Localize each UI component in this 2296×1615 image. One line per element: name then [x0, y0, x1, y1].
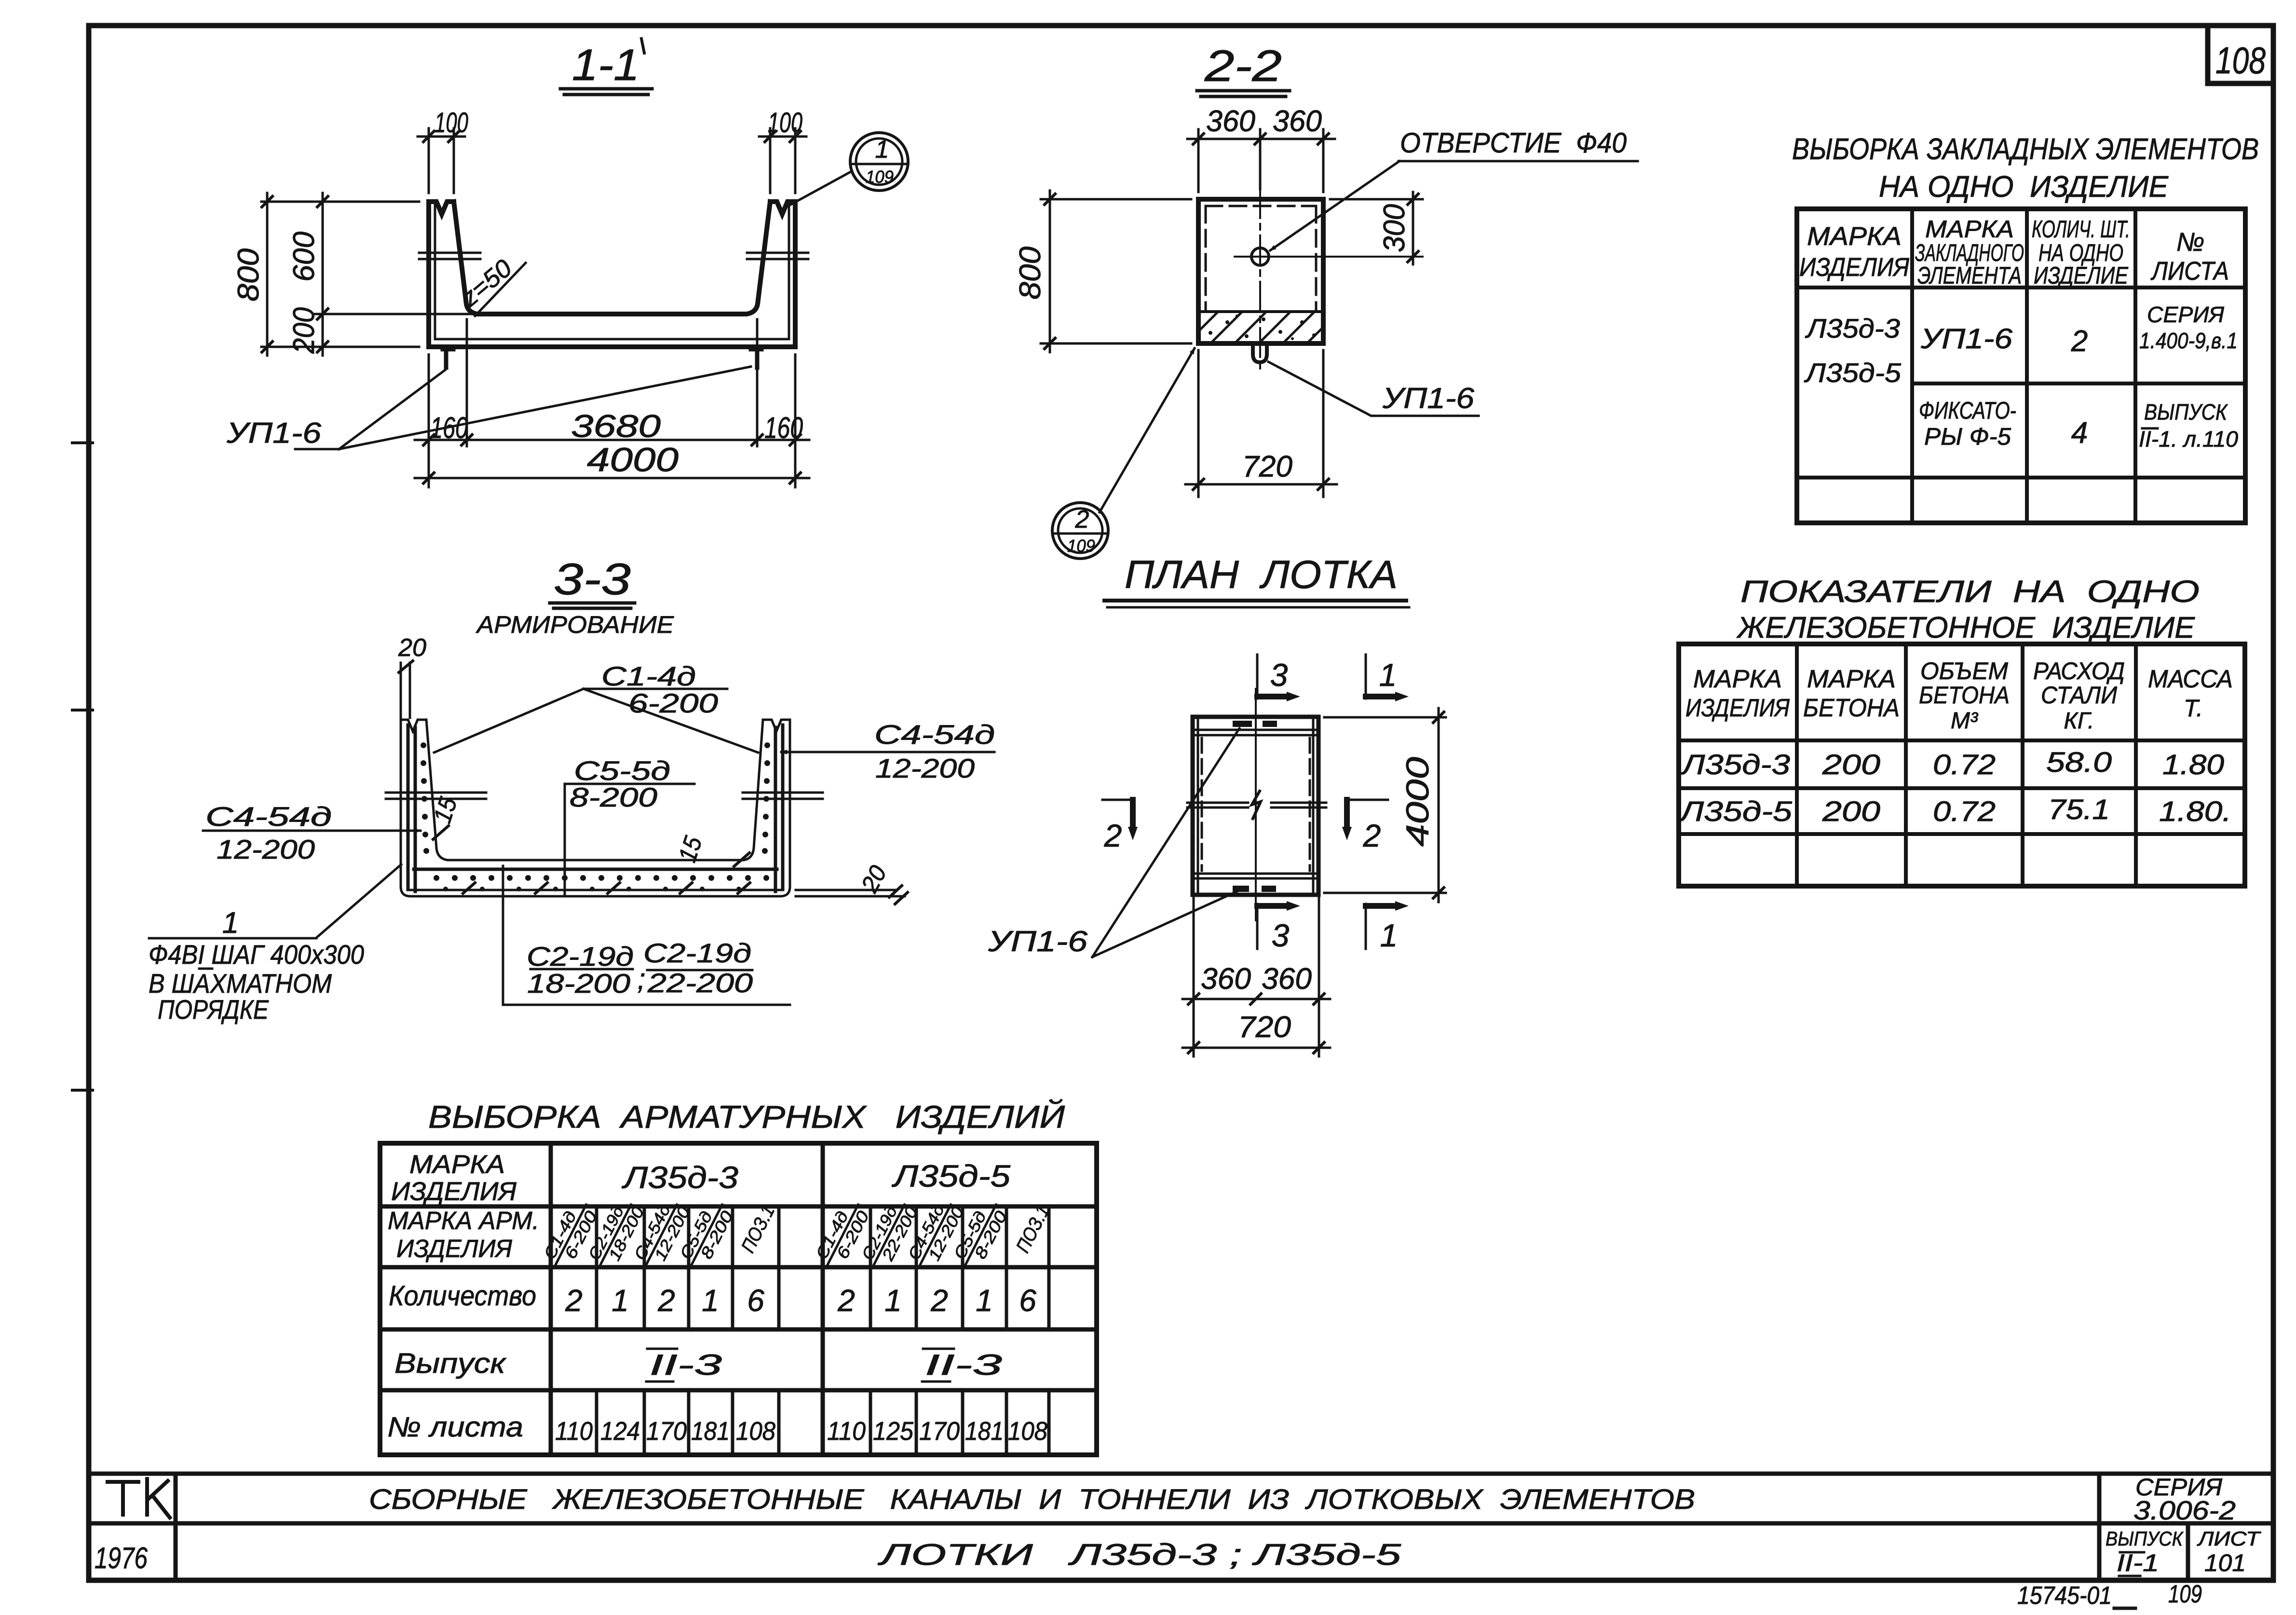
dim 15 left slash — [433, 826, 448, 839]
dim 100 left ext lines — [429, 128, 454, 193]
label C2 leader — [503, 866, 790, 1005]
svg-text:УП1-6: УП1-6 — [226, 417, 322, 449]
svg-text:1: 1 — [884, 1283, 902, 1318]
dim 720 ticks 2-2 — [1193, 479, 1329, 490]
break marks left wall — [419, 253, 480, 259]
note I underline — [199, 968, 212, 970]
dim 800 ticks 2-2 — [1045, 194, 1055, 349]
svg-text:110: 110 — [827, 1417, 866, 1446]
plan joint break zigzag — [1252, 791, 1261, 819]
slab anchor ticks — [463, 883, 750, 893]
channel inner contour walls and floor — [454, 202, 770, 314]
dim 20 top left slash — [399, 661, 413, 672]
svg-text:22-200: 22-200 — [647, 968, 753, 998]
svg-text:0.72: 0.72 — [1933, 796, 1996, 827]
plan UP plates bottom — [1233, 886, 1276, 892]
z=50 leader — [475, 263, 526, 316]
end wall dashed inner lines — [1206, 206, 1316, 312]
svg-text:ИЗДЕЛИЯ: ИЗДЕЛИЯ — [1799, 253, 1909, 282]
UP1-6 leaders — [295, 367, 751, 449]
label C2-19d second fraction line — [647, 969, 752, 972]
svg-text:1: 1 — [611, 1283, 629, 1318]
vypusk II underline — [2119, 1575, 2140, 1577]
svg-text:СЕРИЯ: СЕРИЯ — [2147, 302, 2225, 327]
dim line 4000 — [415, 477, 809, 479]
section mark 1 bottom — [1365, 904, 1367, 949]
svg-text:ИЗДЕЛИЯ: ИЗДЕЛИЯ — [1685, 694, 1790, 722]
svg-text:1-1: 1-1 — [572, 41, 639, 90]
UP1-6 leader 2-2 — [1268, 362, 1479, 416]
fold tick left lower — [72, 1089, 93, 1092]
svg-text:АРМИРОВАНИЕ: АРМИРОВАНИЕ — [476, 611, 674, 638]
svg-text:ОБЪЕМ: ОБЪЕМ — [1920, 657, 2008, 684]
svg-text:Ф4ВI ШАГ 400х300: Ф4ВI ШАГ 400х300 — [149, 939, 364, 970]
svg-text:ЛОТКИ Л35д-3 ; Л35д-5: ЛОТКИ Л35д-3 ; Л35д-5 — [877, 1538, 1401, 1572]
svg-text:БЕТОНА: БЕТОНА — [1919, 682, 2010, 709]
dim 20 bottom right slash — [889, 886, 908, 904]
section mark 2 right — [1345, 799, 1388, 801]
svg-text:ВЫПУСК: ВЫПУСК — [2144, 399, 2228, 424]
svg-text:6: 6 — [747, 1283, 764, 1318]
concrete hatch — [1186, 310, 1341, 343]
svg-text:ИЗДЕЛИЕ: ИЗДЕЛИЕ — [2034, 262, 2129, 289]
svg-text:Л35д-5: Л35д-5 — [1678, 796, 1793, 827]
dim 100 right ext lines — [770, 128, 795, 193]
otverstie underline — [1399, 160, 1638, 163]
svg-text:100: 100 — [435, 107, 468, 138]
svg-text:№ листа: № листа — [387, 1411, 523, 1443]
svg-text:МАРКА: МАРКА — [1925, 216, 2014, 243]
svg-text:2: 2 — [930, 1283, 948, 1318]
svg-text:М³: М³ — [1951, 708, 1979, 734]
svg-text:18-200: 18-200 — [527, 968, 630, 999]
svg-text:КОЛИЧ. ШТ.: КОЛИЧ. ШТ. — [2032, 216, 2130, 243]
svg-text:ВЫПУСК: ВЫПУСК — [2106, 1527, 2184, 1550]
svg-text:360: 360 — [1206, 105, 1255, 138]
svg-text:720: 720 — [1238, 1011, 1291, 1044]
svg-text:124: 124 — [600, 1417, 640, 1446]
dim 300 line — [1412, 192, 1414, 264]
svg-text:720: 720 — [1242, 450, 1292, 483]
plan dim 4000 line — [1438, 708, 1440, 902]
center axis line 2-2 — [1259, 189, 1261, 374]
svg-text:109: 109 — [866, 167, 894, 187]
dim 20 top left ticks — [401, 663, 410, 718]
plan UP plates top — [1233, 721, 1277, 727]
plan dim 360 ext lines — [1194, 898, 1319, 1006]
concrete dots — [1209, 315, 1316, 340]
svg-text:800: 800 — [1014, 246, 1047, 300]
rot label g1c2 C2-19d — [584, 1195, 648, 1273]
right wall rebar lines — [775, 725, 783, 891]
rot label g1c1 C1-4d — [539, 1196, 602, 1273]
svg-text:ЛИСТ: ЛИСТ — [2197, 1527, 2262, 1550]
svg-text:С4-54д: С4-54д — [874, 719, 995, 750]
left wall rebar dots — [421, 742, 429, 854]
svg-text:№: № — [2176, 228, 2204, 257]
hole circle — [1251, 248, 1269, 265]
dim 100 left ticks — [423, 131, 459, 142]
dim 4000 ticks — [423, 473, 801, 483]
table3 subcolumn lines group2 row5 — [870, 1390, 1049, 1455]
table2 grid — [1679, 644, 2245, 886]
plan middle joint lines — [1187, 803, 1326, 807]
svg-text:ВЫБОРКА АРМАТУРНЫХ ИЗДЕЛИЙ: ВЫБОРКА АРМАТУРНЫХ ИЗДЕЛИЙ — [428, 1098, 1065, 1135]
svg-text:1: 1 — [1379, 657, 1397, 693]
svg-text:109: 109 — [1067, 536, 1095, 556]
svg-text:3.006-2: 3.006-2 — [2133, 1495, 2236, 1525]
svg-text:108: 108 — [2215, 39, 2266, 82]
svg-text:ЖЕЛЕЗОБЕТОННОЕ ИЗДЕЛИЕ: ЖЕЛЕЗОБЕТОННОЕ ИЗДЕЛИЕ — [1736, 611, 2195, 644]
svg-text:ЛИСТА: ЛИСТА — [2150, 257, 2229, 286]
plan dim 720 line — [1182, 1047, 1330, 1049]
svg-text:СБОРНЫЕ ЖЕЛЕЗОБЕТОННЫЕ КАН: СБОРНЫЕ ЖЕЛЕЗОБЕТОННЫЕ КАНАЛЫ И ТОННЕЛИ … — [369, 1484, 1695, 1515]
dim 15 right slash — [734, 853, 749, 866]
svg-text:360: 360 — [1201, 962, 1251, 996]
svg-text:3: 3 — [1270, 657, 1288, 693]
plan dim 720 ticks — [1188, 1042, 1324, 1053]
rot label g2c3 C4-54d — [904, 1195, 967, 1273]
3-3 outer contour — [401, 720, 790, 896]
svg-text:181: 181 — [691, 1417, 730, 1446]
slab rebar main line — [414, 868, 777, 871]
PLAN — [988, 553, 1446, 1056]
page number box 108 — [2208, 26, 2273, 83]
svg-text:6: 6 — [1019, 1283, 1036, 1318]
svg-text:1: 1 — [702, 1283, 719, 1318]
series cell divider — [2097, 1474, 2102, 1580]
embedded plate UP1-6 left — [443, 349, 453, 368]
plan end wall inner lines bottom — [1193, 874, 1318, 878]
rot label g2c1 C1-4d — [811, 1196, 874, 1273]
SECTION22 — [1014, 41, 1638, 559]
section mark 3 top — [1256, 655, 1259, 698]
title block top line — [89, 1472, 2273, 1476]
svg-text:108: 108 — [736, 1417, 775, 1446]
svg-text:МАРКА: МАРКА — [1807, 222, 1902, 251]
plan dim 4000 ext lines — [1324, 717, 1446, 893]
plan dim 720 ext below — [1194, 1006, 1319, 1056]
svg-text:0.72: 0.72 — [1933, 749, 1996, 780]
svg-text:1: 1 — [976, 1283, 993, 1318]
dim 20 bottom right exts — [796, 890, 905, 896]
svg-text:Л35д-5: Л35д-5 — [1804, 357, 1902, 388]
svg-text:360: 360 — [1262, 962, 1312, 996]
svg-text:БЕТОНА: БЕТОНА — [1803, 694, 1900, 722]
vypusk list divider — [2186, 1523, 2190, 1580]
svg-text:УП1-6: УП1-6 — [1382, 382, 1475, 414]
svg-text:С5-5д: С5-5д — [574, 755, 670, 786]
label C5-5d leader — [564, 784, 566, 894]
svg-text:КГ.: КГ. — [2064, 708, 2094, 734]
svg-text:6-200: 6-200 — [628, 688, 718, 718]
title block middle line — [89, 1521, 2273, 1526]
svg-text:Л35д-5: Л35д-5 — [891, 1159, 1010, 1193]
table3 grid outer — [380, 1143, 1097, 1455]
dim 100 left line — [418, 136, 465, 138]
svg-text:ИЗДЕЛИЯ: ИЗДЕЛИЯ — [396, 1235, 513, 1263]
SECTION11 — [226, 39, 908, 487]
svg-text:360: 360 — [1273, 105, 1322, 138]
svg-text:2-2: 2-2 — [1204, 41, 1282, 91]
rear edge thin lines — [435, 203, 789, 339]
svg-text:4000: 4000 — [1399, 757, 1435, 847]
break marks 3-3 left wall — [386, 793, 486, 799]
detail circle 2/109 — [1052, 503, 1108, 559]
plan dim 360 line — [1182, 998, 1330, 1000]
table3 subcolumn lines group1 row5 — [597, 1390, 779, 1455]
plan center cut line — [1255, 689, 1257, 920]
title 2-2 underline double — [1197, 91, 1290, 96]
table1 II overline — [2142, 427, 2158, 430]
svg-text:ВЫБОРКА ЗАКЛАДНЫХ ЭЛЕМЕНТОВ: ВЫБОРКА ЗАКЛАДНЫХ ЭЛЕМЕНТОВ — [1792, 133, 2259, 166]
section mark 2 left — [1102, 799, 1134, 801]
dim line 600 200 — [322, 193, 324, 356]
svg-text:110: 110 — [555, 1417, 593, 1446]
svg-text:МАРКА: МАРКА — [1807, 665, 1896, 693]
svg-text:160: 160 — [764, 411, 803, 445]
label C1-4d leaders — [434, 689, 758, 753]
dim 800 ext lines 2-2 — [1041, 199, 1191, 343]
svg-text:1.400-9,в.1: 1.400-9,в.1 — [2139, 328, 2238, 353]
3-3 inner contour — [426, 720, 763, 860]
svg-text:С2-19д: С2-19д — [643, 938, 751, 968]
3-3 slab inner bottom line — [408, 889, 783, 891]
svg-text:12-200: 12-200 — [217, 834, 315, 864]
dim 360 360 ext — [1198, 129, 1323, 192]
dim 360 360 line — [1187, 138, 1335, 140]
table3 horizontals — [380, 1206, 1097, 1390]
svg-text:Л35д-3: Л35д-3 — [621, 1160, 738, 1195]
svg-text:ЭЛЕМЕНТА: ЭЛЕМЕНТА — [1917, 262, 2022, 289]
svg-text:ПОРЯДКЕ: ПОРЯДКЕ — [158, 994, 269, 1025]
dim 360 ticks — [1193, 134, 1329, 144]
svg-text:II-1. л.110: II-1. л.110 — [2139, 426, 2238, 452]
break marks 3-3 right wall — [743, 793, 823, 799]
svg-text:2: 2 — [837, 1283, 855, 1318]
break marks right wall — [747, 253, 808, 259]
slab rebar dots row — [434, 875, 769, 891]
plan UP1-6 leaders — [1092, 728, 1239, 957]
table3 subcolumn lines group1 rows2-3 — [597, 1206, 779, 1329]
dim 300 ext line — [1330, 198, 1423, 201]
svg-text:800: 800 — [232, 248, 265, 301]
dim 800 ticks — [262, 196, 272, 352]
svg-text:1: 1 — [1380, 917, 1398, 953]
svg-text:75.1: 75.1 — [2048, 794, 2110, 825]
dim 720 line 2-2 — [1185, 483, 1337, 486]
detail circle 2 leader — [1100, 348, 1195, 512]
svg-text:МАРКА: МАРКА — [1693, 665, 1782, 693]
svg-text:1.80: 1.80 — [2162, 749, 2224, 780]
svg-text:МАРКА АРМ.: МАРКА АРМ. — [388, 1207, 539, 1235]
TABLE1 — [1792, 133, 2259, 523]
svg-text:300: 300 — [1378, 204, 1411, 252]
svg-text:200: 200 — [287, 307, 321, 354]
dim row1 ticks — [423, 435, 801, 445]
label C4-54d left fraction line — [203, 830, 338, 832]
TABLE3 — [380, 1098, 1097, 1455]
svg-text:2: 2 — [2071, 325, 2088, 358]
svg-text:МАССА: МАССА — [2148, 665, 2233, 693]
svg-text:2: 2 — [1104, 818, 1122, 853]
svg-text:Т.: Т. — [2184, 695, 2203, 722]
rot label g1c4 C5-5d — [675, 1196, 738, 1273]
svg-text:СТАЛИ: СТАЛИ — [2041, 682, 2117, 709]
SECTION33 — [149, 555, 995, 1025]
table3 subcolumn lines group2 rows2-3 — [870, 1206, 1049, 1329]
plan title underline double — [1104, 599, 1406, 602]
svg-text:II-3: II-3 — [925, 1349, 1002, 1381]
svg-text:20: 20 — [398, 634, 426, 662]
left ext lines 800 600 200 — [261, 202, 477, 347]
section mark 3 bottom — [1256, 904, 1259, 949]
detail circle leader — [790, 171, 852, 205]
plan outer rect — [1193, 717, 1318, 895]
label C1-4d fraction line — [584, 688, 727, 690]
svg-text:600: 600 — [287, 232, 321, 282]
footer underline dash — [2114, 1607, 2135, 1610]
svg-text:101: 101 — [2204, 1549, 2246, 1576]
vypusk II overline — [2120, 1551, 2144, 1554]
svg-text:Л35д-3: Л35д-3 — [1680, 749, 1790, 780]
dim 300 ticks — [1408, 194, 1418, 262]
svg-text:С1-4д: С1-4д — [601, 661, 696, 691]
svg-text:58.0: 58.0 — [2046, 747, 2112, 778]
svg-text:ПОКАЗАТЕЛИ НА ОДНО: ПОКАЗАТЕЛИ НА ОДНО — [1740, 574, 2200, 609]
fold tick left upper — [72, 441, 93, 444]
position 1 underline — [149, 937, 316, 940]
fixator loop below slab — [1253, 343, 1267, 362]
title 3-3 underline double — [550, 603, 635, 608]
rot label g1c3 C4-54d — [630, 1195, 693, 1273]
svg-text:100: 100 — [768, 107, 802, 138]
embedded plate UP1-6 right — [751, 349, 761, 368]
svg-text:108: 108 — [1008, 1417, 1047, 1446]
svg-text:1: 1 — [222, 906, 239, 940]
svg-text:3: 3 — [1272, 917, 1290, 953]
svg-text:УП1-6: УП1-6 — [1920, 323, 2013, 355]
svg-text:2: 2 — [1363, 818, 1381, 853]
dim 720 ext lines 2-2 — [1198, 350, 1323, 497]
svg-text:170: 170 — [919, 1417, 960, 1446]
otverstie leader — [1270, 161, 1399, 250]
fold tick left middle — [72, 709, 93, 712]
plan dim 4000 ticks — [1433, 712, 1444, 898]
svg-text:181: 181 — [965, 1417, 1004, 1446]
label C2-19d first fraction line — [530, 968, 633, 971]
svg-text:МАРКА: МАРКА — [409, 1150, 505, 1179]
svg-text:С4-54д: С4-54д — [205, 801, 332, 832]
channel outer contour — [429, 202, 795, 347]
hatch zone top line — [1200, 310, 1321, 313]
label C4-54d right fraction line — [877, 751, 994, 753]
rot label g2c2 C2-19d — [857, 1195, 921, 1273]
svg-text:200: 200 — [1822, 796, 1880, 827]
position 1 leader — [316, 864, 401, 938]
svg-text:ОТВЕРСТИЕ Ф40: ОТВЕРСТИЕ Ф40 — [1400, 127, 1627, 159]
svg-text:4000: 4000 — [587, 441, 679, 479]
TK logo text — [108, 1482, 138, 1515]
svg-text:С2-19д: С2-19д — [527, 941, 634, 972]
TK cell divider — [174, 1474, 178, 1580]
dim 100 right line — [759, 136, 806, 138]
rot label g2c4 C5-5d — [949, 1196, 1012, 1273]
svg-text:ФИКСАТО-: ФИКСАТО- — [1919, 397, 2016, 424]
plan dashed wall lines — [1202, 738, 1310, 871]
svg-text:3680: 3680 — [571, 408, 661, 444]
svg-text:125: 125 — [873, 1417, 914, 1446]
svg-text:Л35д-3: Л35д-3 — [1805, 313, 1900, 343]
TABLE2 — [1678, 574, 2245, 886]
svg-text:Выпуск: Выпуск — [394, 1348, 507, 1379]
section mark 1 top — [1365, 655, 1367, 698]
svg-text:1.80.: 1.80. — [2159, 796, 2231, 827]
detail circle 1/109 — [850, 133, 908, 191]
hole horizontal axis — [1235, 256, 1423, 258]
bottom ext lines — [429, 319, 795, 487]
svg-text:109: 109 — [2168, 1580, 2202, 1608]
svg-text:НА ОДНО ИЗДЕЛИЕ: НА ОДНО ИЗДЕЛИЕ — [1879, 170, 2169, 204]
svg-text:1976: 1976 — [95, 1542, 148, 1575]
dim line 160 3680 160 — [415, 439, 809, 441]
left wall rebar lines — [408, 725, 415, 891]
end wall outer rect — [1198, 199, 1323, 343]
svg-text:8-200: 8-200 — [570, 782, 657, 812]
label C5-5d fraction line — [565, 783, 694, 785]
title apostrophe tick — [641, 39, 644, 53]
label C4-54d left leader — [338, 830, 421, 832]
svg-text:ПЛАН ЛОТКА: ПЛАН ЛОТКА — [1125, 553, 1398, 597]
svg-text:II-3: II-3 — [650, 1349, 722, 1381]
table1 grid — [1797, 209, 2245, 523]
svg-text:15745-01: 15745-01 — [2017, 1582, 2112, 1610]
svg-text:УП1-6: УП1-6 — [988, 925, 1088, 958]
table3 main verticals — [551, 1143, 823, 1455]
label C4-54d right leader — [781, 751, 877, 753]
svg-text:170: 170 — [646, 1417, 687, 1446]
plan dim 360 ticks — [1188, 994, 1324, 1004]
svg-text:3-3: 3-3 — [554, 555, 631, 604]
svg-text:РАСХОД: РАСХОД — [2033, 657, 2125, 684]
dim line 800 — [266, 193, 269, 356]
dim 100 right ticks — [765, 131, 801, 142]
dim 600 200 ticks — [317, 196, 328, 352]
svg-text:2: 2 — [1075, 506, 1089, 534]
svg-text:РЫ Ф-5: РЫ Ф-5 — [1924, 423, 2011, 450]
svg-text:4: 4 — [2071, 416, 2088, 450]
svg-text:Количество: Количество — [389, 1280, 536, 1312]
svg-text:1: 1 — [875, 136, 889, 164]
svg-text:ИЗДЕЛИЯ: ИЗДЕЛИЯ — [391, 1177, 516, 1206]
plan inner side lines — [1198, 717, 1313, 895]
right wall rebar dots — [762, 742, 770, 854]
dim 800 line 2-2 — [1049, 191, 1051, 352]
svg-text:2: 2 — [565, 1283, 583, 1318]
svg-text:12-200: 12-200 — [875, 753, 975, 783]
title underline double — [560, 89, 652, 95]
plan end wall inner lines top — [1193, 730, 1318, 735]
svg-text:2: 2 — [657, 1283, 675, 1318]
TITLEBLOCK — [89, 1474, 2273, 1580]
svg-text:200: 200 — [1822, 749, 1880, 780]
